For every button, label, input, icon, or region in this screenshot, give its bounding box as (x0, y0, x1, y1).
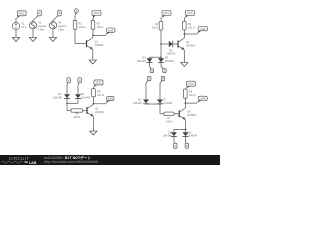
watermark title text (44, 155, 91, 160)
wire R1 top (74, 15, 76, 20)
label R2 value (97, 22, 104, 28)
net flag VCC on R8 (185, 81, 195, 89)
wire D7 bottom (159, 103, 161, 105)
svg-text:2N3904: 2N3904 (95, 44, 104, 47)
svg-text:R6: R6 (75, 113, 79, 116)
net flag A below D8 (174, 140, 178, 148)
diode D5 (series) (169, 41, 173, 48)
wire D2 bottom (77, 99, 79, 104)
svg-text:100 Ω: 100 Ω (97, 26, 104, 29)
svg-text:square(: square( (38, 25, 47, 28)
CircuitLab logo text CIRCUIT (9, 156, 30, 161)
svg-text:Q1: Q1 (95, 41, 99, 44)
svg-text:D2: D2 (81, 93, 85, 96)
output net flag out1 (105, 28, 115, 35)
ground under V3 (49, 38, 56, 42)
wire Q3 emitter (92, 117, 94, 132)
wire R1 to base (74, 29, 76, 43)
wire R4 bottom (183, 30, 185, 34)
label Q4 (187, 111, 196, 117)
label D1 (53, 93, 62, 99)
svg-text:Q2: Q2 (186, 41, 190, 44)
net flag A on V2 (33, 10, 41, 21)
wire D6 bottom (145, 103, 147, 105)
diode D7 (input) (157, 100, 163, 104)
label Q2 (186, 41, 195, 47)
svg-text:D7: D7 (163, 99, 167, 102)
junction Q4 collector node (185, 102, 187, 104)
label R1 value (79, 22, 86, 28)
input net flag A (146, 76, 151, 83)
wire D8 top (173, 129, 175, 132)
wire diode bus (146, 103, 160, 105)
wire D5 to base (173, 43, 178, 45)
label D2 (81, 93, 90, 99)
wire collector to out flag (184, 33, 197, 35)
net flag VCC on V1 (16, 11, 26, 19)
wire collector to out flag (93, 103, 106, 105)
svg-text:ec1243365 / BJT NOTゲート: ec1243365 / BJT NOTゲート (44, 155, 91, 160)
wire collector to out flag (93, 34, 106, 36)
svg-text:VCC: VCC (187, 11, 193, 15)
diode D1 (input) (64, 94, 70, 98)
svg-text:R2: R2 (97, 22, 101, 25)
svg-text:V1: V1 (21, 22, 25, 25)
resistor R3 (159, 21, 163, 30)
wire Q4 collector (185, 103, 187, 108)
diode D8 (emitter) (171, 132, 177, 136)
svg-text:1N4148: 1N4148 (163, 102, 172, 105)
svg-text:D6: D6 (138, 99, 142, 102)
wire D1 bottom (66, 99, 68, 104)
diode D2 (input) (75, 94, 81, 98)
voltage source V3 (square 2 kHz) (49, 22, 56, 29)
svg-text:R1: R1 (79, 22, 83, 25)
label R7 value (166, 117, 173, 123)
wire D3 top (149, 57, 151, 58)
output net flag out2 (197, 27, 208, 35)
wire V2 bottom (32, 29, 34, 38)
voltage source V2 (square 1 kHz) (29, 22, 36, 29)
wire R8 bottom (184, 98, 186, 103)
footer watermark bar (0, 155, 220, 165)
svg-text:100 Ω: 100 Ω (97, 94, 104, 97)
net flag VCC on R5 (94, 80, 104, 87)
wire R5 top (93, 87, 95, 89)
transistor Q3 (87, 105, 93, 117)
junction node R3/D5 (160, 43, 162, 45)
label R3 value (151, 23, 158, 29)
svg-text:2N3904: 2N3904 (187, 114, 196, 117)
junction input diode bus (160, 56, 162, 58)
svg-text:1N4148: 1N4148 (163, 135, 172, 138)
wire R8 top (184, 87, 186, 90)
wire V3 top (52, 20, 54, 22)
label D9 (188, 131, 197, 137)
svg-text:VCC: VCC (94, 11, 100, 15)
ground under V2 (29, 38, 36, 42)
svg-text:1 kHz: 1 kHz (38, 29, 45, 32)
wire flagA to D1 (66, 85, 68, 94)
svg-text:1N4148: 1N4148 (81, 97, 90, 100)
svg-text:Q4: Q4 (187, 111, 191, 114)
label D3 (137, 57, 146, 63)
input net flag B (78, 78, 82, 86)
wire D8 bottom (173, 137, 175, 141)
CircuitLab logo text LAB (29, 161, 37, 165)
svg-text:100 Ω: 100 Ω (188, 27, 195, 30)
svg-text:VCC: VCC (19, 12, 25, 16)
net flag B below D9 (185, 140, 189, 148)
label V2 value (38, 22, 47, 32)
wire to R6 (67, 110, 71, 112)
wire input diode bus (150, 56, 162, 58)
wire Q4 emitter (185, 120, 187, 130)
wire R3 bottom (160, 30, 162, 44)
svg-text:100 Ω: 100 Ω (189, 94, 196, 97)
resistor R1 (73, 21, 77, 30)
output net flag out4 (196, 96, 207, 103)
label D7 (163, 99, 172, 105)
wire flagB to D2 (77, 85, 79, 94)
CircuitLab logo wave (2, 161, 28, 163)
wire V1 bottom (15, 30, 17, 38)
transistor Q2 (178, 38, 184, 50)
wire V1 top (15, 18, 17, 22)
svg-text:R4: R4 (188, 23, 192, 26)
wire D9 bottom (185, 137, 187, 141)
svg-text:out2: out2 (200, 28, 205, 31)
svg-text:100 Ω: 100 Ω (151, 27, 158, 30)
svg-text:out4: out4 (200, 98, 205, 101)
diode D9 (emitter) (183, 132, 189, 136)
svg-text:100 Ω: 100 Ω (73, 116, 80, 119)
diode D4 (input) (158, 58, 164, 62)
svg-text:LAB: LAB (29, 161, 37, 165)
net flag VCC on R2 (92, 11, 101, 19)
diode D6 (input) (143, 100, 149, 104)
svg-text:2N3904: 2N3904 (186, 44, 195, 47)
wire V3 bottom (52, 29, 54, 38)
wire R3 top (160, 18, 162, 22)
transistor Q1 (87, 38, 93, 50)
resistor R6 (series) (71, 109, 83, 112)
svg-text:2 kHz: 2 kHz (58, 29, 65, 32)
wire diode bus (67, 102, 78, 104)
label Q1 (95, 41, 104, 47)
svg-text:out1: out1 (108, 29, 113, 32)
wire bus down (159, 104, 161, 114)
label R6 value (73, 113, 80, 119)
svg-text:V3: V3 (58, 22, 62, 25)
wire V2 top (32, 20, 34, 22)
wire bus down (66, 103, 68, 110)
label D4 (165, 57, 174, 63)
input net flag on R1 (74, 9, 78, 15)
wire collector to out flag (185, 102, 197, 104)
svg-text:2N3904: 2N3904 (95, 111, 104, 114)
junction emitter diode bus (185, 129, 187, 131)
svg-text:Q3: Q3 (95, 107, 99, 110)
wire base Q1 (75, 43, 87, 45)
net flag B on V3 (53, 10, 61, 21)
svg-text:VCC: VCC (96, 81, 102, 85)
svg-text:D4: D4 (165, 57, 169, 60)
svg-text:12 V: 12 V (21, 26, 26, 29)
ground under Q1 (89, 60, 96, 64)
watermark url text (44, 160, 98, 164)
wire R2 bottom (92, 29, 94, 35)
wire Q1 collector (92, 35, 94, 38)
svg-text:D3: D3 (142, 57, 146, 60)
svg-text:R5: R5 (97, 90, 101, 93)
wire flag to D6 (145, 83, 147, 100)
svg-text:1N4148: 1N4148 (53, 97, 62, 100)
wire flag to D7 (159, 83, 161, 100)
wire emitter diode bus (174, 128, 186, 130)
svg-text:R3: R3 (155, 23, 159, 26)
label D6 (133, 99, 142, 105)
net flag VCC on R4 (184, 11, 194, 19)
svg-text:100 Ω: 100 Ω (79, 26, 86, 29)
svg-text:out3: out3 (108, 98, 113, 101)
svg-text:D5: D5 (169, 49, 173, 52)
output net flag out3 (105, 96, 114, 103)
resistor R2 (91, 21, 95, 30)
junction diode bus (66, 103, 68, 105)
junction Q2 collector node (184, 33, 186, 35)
svg-text:V2: V2 (38, 22, 42, 25)
wire R7 to base (174, 113, 179, 115)
label R4 value (188, 23, 195, 29)
svg-text:D9: D9 (188, 131, 192, 134)
wire Q2 collector (183, 34, 185, 38)
wire to R7 (160, 113, 164, 115)
wire node to D5 (161, 43, 169, 45)
svg-text:1N4148: 1N4148 (165, 60, 174, 63)
ground under Q2 (181, 63, 188, 67)
wire D3 to flag (149, 63, 151, 66)
wire Q2 emitter (183, 50, 185, 63)
wire R2 top (92, 18, 94, 21)
input net flag A (67, 78, 71, 86)
svg-text:1N4148: 1N4148 (137, 60, 146, 63)
wire Q3 collector (92, 103, 94, 106)
resistor R5 (92, 89, 96, 97)
svg-text:R7: R7 (167, 117, 171, 120)
label D5 value (166, 49, 175, 55)
junction Q3 collector node (93, 103, 95, 105)
label V1 value (21, 22, 26, 28)
junction Q1 collector node (92, 35, 94, 37)
svg-text:D1: D1 (58, 93, 62, 96)
label V3 value (58, 22, 67, 32)
wire node down (160, 44, 162, 57)
voltage source V1 (12 V DC) (12, 22, 19, 29)
wire R5 bottom (93, 97, 95, 104)
label D8 (163, 131, 172, 137)
svg-text:http://circuitlab.com/c8f26dc5: http://circuitlab.com/c8f26dc53bbf6 (44, 160, 98, 164)
svg-text:VCC: VCC (188, 82, 194, 86)
net flag VCC on R3 (161, 11, 171, 19)
wire D9 top (185, 129, 187, 132)
input net flag B (160, 76, 165, 83)
junction diode bus (159, 103, 161, 105)
resistor R8 (184, 89, 188, 98)
wire D4 top (160, 57, 162, 58)
input net flag B (161, 65, 166, 72)
label R8 value (189, 91, 196, 97)
svg-text:R8: R8 (189, 91, 193, 94)
ground under Q3 (90, 131, 97, 135)
input net flag A (150, 65, 154, 72)
svg-text:1N4148: 1N4148 (133, 102, 142, 105)
svg-text:CIRCUIT: CIRCUIT (9, 156, 30, 161)
ground under V1 (12, 38, 19, 42)
label Q3 (95, 107, 104, 113)
diode D3 (input) (147, 58, 153, 62)
wire Q1 emitter (92, 50, 94, 61)
svg-text:100 Ω: 100 Ω (166, 121, 173, 124)
resistor R4 (183, 21, 187, 30)
label R5 value (97, 90, 104, 96)
svg-text:1N4148: 1N4148 (166, 53, 175, 56)
resistor R7 (series) (164, 112, 174, 115)
svg-text:square(: square( (58, 25, 67, 28)
wire D4 to flag (160, 63, 162, 66)
wire R6 to base (83, 110, 87, 112)
svg-text:VCC: VCC (164, 11, 170, 15)
transistor Q4 (179, 108, 185, 120)
wire R4 top (183, 18, 185, 22)
svg-text:1N4148: 1N4148 (188, 135, 197, 138)
